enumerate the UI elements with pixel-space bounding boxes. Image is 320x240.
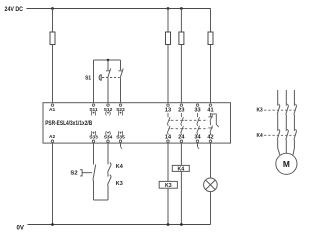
wire phase L3 top [293,90,295,106]
coil K4 box [172,165,189,171]
terminal S11 [92,104,94,106]
wire lamp to 0V corner [210,192,212,225]
svg-text:K3: K3 [165,183,172,189]
svg-text:33: 33 [194,108,200,114]
terminal 33 [196,104,198,106]
contactor K4 pole 3 [294,131,297,140]
wire A1 drop upper [52,9,54,33]
fuse F4 [208,32,213,45]
wire A2 to 0V [52,143,54,224]
contact K3 feedback (NC) [108,175,112,185]
mechanical link dashed row 1 [171,119,208,121]
wire S12 branch lower [107,78,109,103]
svg-text:K4: K4 [116,164,123,170]
contactor K4 pole 2 [286,131,289,140]
terminal 34 [196,140,198,142]
terminal S22 [119,104,121,106]
contactor K4 pole 1 [277,131,280,140]
coil K3 box [159,181,177,188]
node junction 13 on 24V rail [167,7,170,10]
terminal 14 [167,140,169,142]
fuse F2 [166,32,171,45]
svg-text:S34: S34 [104,134,113,140]
terminal S33 [92,140,94,142]
wire S34 branch [107,143,109,164]
wire A1 drop lower [52,45,54,103]
svg-text:0V: 0V [17,226,25,232]
svg-text:M: M [283,159,290,169]
svg-text:24V DC: 24V DC [5,6,24,13]
terminal S12 [107,104,109,106]
svg-text:34: 34 [194,135,201,141]
wire K3 coil to 0V [167,188,169,224]
svg-text:A2: A2 [49,134,55,140]
contactor K3 pole 1 [277,106,280,115]
svg-text:(+): (+) [91,111,97,116]
wire between K4 and K3 contacts [107,173,109,177]
svg-text:(+): (+) [105,111,111,116]
terminal 41 [209,104,211,106]
svg-text:K4: K4 [177,166,184,172]
contactor K4 link dashed [264,134,295,136]
lamp H1 (indicator) [204,178,218,192]
wire phase L2 top [285,90,287,106]
contact 33-34 (two NO in series) [197,113,200,135]
svg-text:(+): (+) [118,111,124,116]
node junction 23 on 24V rail [180,7,183,10]
contact K4 feedback (NC) [108,162,112,172]
wire 34 stub [197,143,199,147]
fuse F1 [50,32,55,45]
svg-text:PSR-ESL4/3x1/1x2/B: PSR-ESL4/3x1/1x2/B [45,120,92,127]
node junction A2 on 0V rail [51,223,54,226]
wire 23 drop upper [180,9,182,33]
mechanical link dashed row 2 [171,128,208,130]
contact S1 channel 1 (NC) [106,69,111,79]
wire K4 coil to 0V [180,171,182,224]
wire 23 drop lower [180,45,182,103]
svg-text:S35: S35 [116,134,125,140]
wire S1 sub-rail [94,59,121,61]
svg-text:K4: K4 [257,133,263,139]
terminal 23 [180,104,182,106]
terminal S34 [107,140,109,142]
wire S22 branch lower [120,78,122,103]
wire 13 drop lower [167,45,169,103]
svg-text:13: 13 [165,108,171,114]
contact S1 channel 2 (NC) [119,69,124,79]
wire 24 to K4 coil [180,143,182,165]
terminal 13 [167,104,169,106]
node junction A1 on 24V rail [51,7,54,10]
wire below S2 [93,180,95,200]
terminal 24 [180,140,182,142]
wire below K3 contact [107,185,109,200]
wire phase L1 top [277,90,279,106]
wire 41 drop upper (rail corner) [210,8,212,32]
terminal 42 [209,140,211,142]
wire 24V rail [27,8,211,10]
node junction S12 branch [107,59,110,62]
svg-text:41: 41 [207,108,213,114]
wire 0V rail [28,224,211,226]
switch S2 contact (NO start button) [93,165,96,181]
svg-text:S2: S2 [70,171,77,177]
wire start-loop bottom [94,199,109,201]
svg-text:A1: A1 [49,107,55,113]
relay block U1 PSR-ESL4 outline [43,103,231,143]
contact 23-24 (two NO in series) [181,113,184,135]
wire S35 stub [120,143,122,147]
wire S22 branch upper [120,60,122,70]
contactor K3 pole 2 [286,106,289,115]
svg-text:K3: K3 [257,108,263,114]
switch S2 actuator [80,170,92,176]
fuse F3 [179,32,184,45]
svg-text:S1: S1 [85,75,92,81]
svg-text:24: 24 [178,135,185,141]
svg-text:14: 14 [165,135,172,141]
wire phase L2 mid [285,114,287,130]
wire phase L1 mid [277,114,279,130]
contactor K3 pole 3 [294,106,297,115]
wire motor lead 3 [293,140,294,155]
switch S1 e-stop actuator [99,74,101,80]
terminal A2 [51,140,53,142]
wire S11 riser [93,60,95,103]
wire 14 to K3 coil [167,143,169,181]
S1 mechanical link (dashed) [102,77,120,79]
node junction K3 on 0V rail [167,223,170,226]
wire 42 to lamp [210,143,212,178]
terminal A1 [51,104,53,106]
svg-text:42: 42 [207,135,213,141]
wire motor lead 1 [278,140,280,155]
svg-text:S33: S33 [89,134,98,140]
node junction K4 on 0V rail [180,223,183,226]
wire 13 drop upper [167,9,169,33]
svg-text:23: 23 [178,108,184,114]
terminal S35 [119,140,121,142]
wire S33 branch [93,143,95,164]
wire 41 drop lower [210,45,212,103]
wire phase L3 mid [293,114,295,130]
wire S12 branch upper [107,60,109,70]
contact 41-42 (two NC in series, force-guided) [208,113,218,135]
contact 13-14 (two NO in series) [167,113,170,135]
motor M1 [276,153,297,174]
wire motor lead 2 [285,140,287,154]
contactor K3 link dashed [264,109,295,111]
svg-text:K3: K3 [116,181,123,187]
